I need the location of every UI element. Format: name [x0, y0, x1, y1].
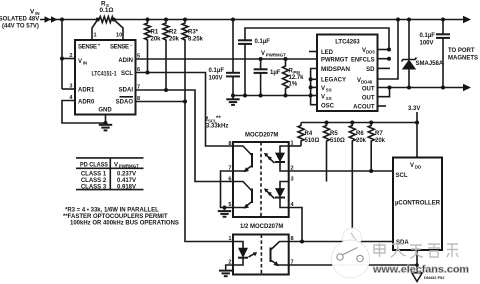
capacitor C1 0.1uF 100V input bypass — [208, 18, 240, 96]
node R6 SDA junction — [350, 240, 354, 244]
wire VDD48 to top rail — [378, 20, 399, 80]
svg-text:V: V — [114, 162, 118, 168]
node VDD5 junction — [387, 48, 391, 52]
svg-text:SDAI: SDAI — [119, 88, 134, 94]
node input junction — [60, 18, 64, 22]
wire VSS bus vertical — [311, 69, 317, 105]
svg-text:PD CLASS: PD CLASS — [80, 162, 108, 168]
resistor R4 510ohm — [298, 123, 320, 147]
node R2-SDAI junction — [164, 88, 168, 92]
svg-text:CLASS 2: CLASS 2 — [81, 178, 107, 184]
node C4 top junction — [441, 18, 445, 22]
label TO PORT MAGNETS — [448, 48, 478, 62]
transistor Q1 upper opto — [233, 146, 252, 172]
wire SDA row — [289, 241, 393, 243]
svg-text:1µF: 1µF — [270, 70, 281, 76]
wire kelvin sense right to pin 10 — [114, 20, 123, 41]
wire VDD5 pin stub — [378, 49, 390, 51]
wire uController SDA down — [416, 250, 418, 273]
svg-text:R1: R1 — [151, 30, 159, 36]
svg-text:LEGACY: LEGACY — [321, 78, 346, 84]
svg-text:100kHz OR 400kHz BUS OPERATION: 100kHz OR 400kHz BUS OPERATIONS — [70, 221, 179, 227]
optocoupler U3 dashed divider — [260, 142, 262, 217]
svg-text:LTC4151-1: LTC4151-1 — [92, 72, 118, 78]
svg-text:20k: 20k — [151, 37, 162, 43]
ground VSS rail ground symbol — [226, 96, 239, 105]
resistor R2 20k — [163, 18, 180, 91]
wire lower opto pin7 row — [289, 264, 417, 266]
svg-text:*R3 = 4 • 33k, 1/6W IN PARALLE: *R3 = 4 • 33k, 1/6W IN PARALLEL — [65, 208, 159, 214]
svg-text:12.7k: 12.7k — [289, 75, 305, 81]
optocoupler U3 box — [233, 142, 289, 217]
svg-text:SMAJ58A: SMAJ58A — [416, 61, 444, 67]
svg-text:www.elecfans.com: www.elecfans.com — [372, 264, 469, 276]
svg-text:OSC: OSC — [321, 104, 335, 110]
svg-text:V: V — [261, 51, 265, 57]
svg-text:V: V — [321, 86, 325, 92]
svg-text:20k: 20k — [356, 138, 367, 144]
svg-text:V: V — [78, 59, 82, 65]
svg-text:0.1Ω: 0.1Ω — [100, 7, 114, 14]
node GND junction — [104, 121, 108, 125]
resistor RPM 12.7k 1% — [283, 59, 305, 96]
svg-text:20k: 20k — [375, 138, 386, 144]
svg-text:LTC4263: LTC4263 — [335, 40, 360, 46]
light arrows channel 2 — [264, 188, 275, 198]
svg-text:DD48: DD48 — [361, 80, 373, 85]
svg-text:100V: 100V — [420, 41, 434, 47]
node 3.3V junction — [415, 121, 419, 125]
wire kelvin sense left to pin 1 — [92, 20, 98, 41]
node C2 bottom junction — [243, 94, 247, 98]
svg-text:**FASTER OPTOCOUPLERS PERMIT: **FASTER OPTOCOUPLERS PERMIT — [63, 214, 168, 220]
svg-text:0.1µF: 0.1µF — [420, 33, 436, 39]
resistor R1 20k — [145, 18, 162, 73]
node D1 bottom junction — [407, 86, 411, 90]
svg-text:+: + — [98, 43, 101, 48]
capacitor C3 1uF — [254, 59, 281, 96]
ground lower opto — [219, 271, 232, 277]
wire SCL row to uController — [289, 170, 393, 172]
node C4 bottom junction — [441, 86, 445, 90]
IC U5 uController box — [393, 158, 442, 251]
svg-text:0.1µF: 0.1µF — [255, 39, 271, 45]
wire LED pin stub — [309, 51, 317, 53]
light arrow lower opto — [249, 252, 258, 257]
wire emitter tie pins 7-5 — [221, 171, 234, 208]
svg-text:100V: 100V — [208, 76, 222, 82]
node R3-SDAO junction — [183, 100, 187, 104]
node RPM bottom junction — [284, 94, 288, 98]
svg-text:V: V — [321, 95, 325, 101]
svg-text:MOCD207M: MOCD207M — [245, 133, 278, 139]
wire top 48V rail — [62, 16, 471, 23]
svg-text:R3*: R3* — [188, 30, 199, 36]
node C1 bottom junction — [231, 94, 235, 98]
svg-text:SENSE: SENSE — [110, 45, 129, 51]
svg-text:GND: GND — [98, 108, 112, 114]
svg-text:OUT: OUT — [362, 96, 375, 102]
wire ACOUT pin stub — [378, 105, 387, 107]
svg-text:ISOLATED 48V: ISOLATED 48V — [0, 17, 39, 23]
svg-text:LED: LED — [321, 50, 334, 56]
capacitor C4 0.1uF 100V output — [420, 20, 451, 88]
svg-text:8.25k: 8.25k — [188, 37, 204, 43]
svg-text:DN432 F02: DN432 F02 — [424, 275, 445, 280]
svg-text:R5: R5 — [330, 131, 338, 137]
svg-text:ADIN: ADIN — [118, 58, 133, 64]
resistor R5 510ohm — [324, 121, 346, 182]
svg-text:1: 1 — [94, 33, 97, 39]
svg-text:DD5: DD5 — [366, 50, 375, 55]
op-amp U1 LTC4151-1 box — [75, 40, 136, 115]
node pin7 SDA junction — [415, 263, 419, 267]
svg-text:0.237V: 0.237V — [117, 171, 136, 177]
svg-text:ACOUT: ACOUT — [353, 105, 375, 111]
svg-text:µCONTROLLER: µCONTROLLER — [395, 201, 441, 207]
svg-text:SENSE: SENSE — [78, 45, 97, 51]
wire ADIN pin5 to PWRMGT row — [136, 58, 318, 60]
table PD CLASS — [76, 158, 144, 190]
svg-text:R6: R6 — [356, 131, 364, 137]
svg-text:510Ω: 510Ω — [305, 138, 320, 144]
svg-text:ADR0: ADR0 — [78, 100, 95, 106]
svg-text:−: − — [130, 43, 133, 48]
node VSS bus junction VSS1 — [309, 85, 313, 89]
wire R4 to opto pin 1 — [289, 145, 301, 147]
wire 3.3V rail — [301, 112, 417, 158]
wire SDAI pin7 row — [136, 90, 234, 182]
node R7-SCL junction — [369, 169, 373, 173]
node RPM top junction — [284, 57, 288, 61]
svg-text:ENFCLS: ENFCLS — [351, 58, 375, 64]
svg-text:TO PORT: TO PORT — [448, 48, 475, 54]
svg-text:PWRMGT: PWRMGT — [266, 53, 286, 58]
resistor R7 20k — [368, 121, 385, 172]
node VSS bus junction VSS2 — [309, 94, 313, 98]
node VSS bus junction LEGACY — [309, 77, 313, 81]
arrow SDA off page — [412, 273, 422, 282]
svg-text:**: ** — [216, 116, 221, 122]
svg-text:R4: R4 — [305, 131, 313, 137]
svg-text:1%: 1% — [289, 82, 298, 88]
wire VIN vertical to pin 2 and pin 3 — [62, 20, 75, 90]
watermark logo — [332, 228, 370, 278]
svg-text:SS: SS — [326, 96, 332, 101]
svg-text:MIDSPAN: MIDSPAN — [321, 67, 350, 73]
wire opto pin4 to SDA row — [289, 208, 302, 242]
svg-text:R7: R7 — [375, 131, 383, 137]
svg-text:SCL: SCL — [396, 173, 408, 179]
svg-text:3: 3 — [69, 84, 72, 90]
wire ADR0 pin 4 to ground — [62, 95, 106, 123]
node emitter ground junction — [223, 206, 227, 210]
wire SDAO pin8 row — [136, 102, 234, 242]
wire lower opto pin2 to ground — [226, 265, 233, 270]
svg-text:2: 2 — [69, 53, 72, 59]
resistor RS 0.1ohm — [96, 1, 116, 23]
wire SD pin stub — [378, 67, 391, 69]
IC U2 LTC4263 box — [317, 35, 378, 112]
node ENFCLS junction — [387, 57, 391, 61]
ground under LTC4151 — [99, 125, 112, 131]
LED D3 upper opto channel 2 — [275, 182, 289, 208]
node OUT junction — [388, 86, 392, 90]
svg-text:0.918V: 0.918V — [117, 184, 136, 190]
node pin4 vertical SDA junction — [300, 240, 304, 244]
svg-text:PWRMGT: PWRMGT — [119, 163, 139, 168]
LED D2 upper opto channel 1 — [275, 146, 289, 171]
svg-text:20k: 20k — [169, 37, 180, 43]
node VPWRMGT label — [261, 51, 286, 58]
wire input lead with double arrowhead — [40, 16, 62, 23]
wire GND pin stub — [105, 115, 107, 124]
node C3 top junction — [259, 57, 263, 61]
svg-text:1/2 MOCD207M: 1/2 MOCD207M — [240, 224, 283, 230]
node pin2 junction — [60, 57, 64, 61]
transistor Q3 lower opto — [271, 242, 289, 267]
label fSCL 3.33kHz — [206, 116, 228, 130]
svg-text:V: V — [410, 163, 414, 169]
node C3 bottom junction — [259, 94, 263, 98]
svg-text:3: 3 — [291, 177, 294, 183]
svg-text:ADR1: ADR1 — [78, 88, 95, 94]
svg-text:R2: R2 — [169, 30, 177, 36]
wire VSS ground rail — [233, 95, 311, 97]
wire SCL pin6 row — [136, 73, 234, 147]
capacitor C2 0.1uF VDD5 bypass — [238, 28, 389, 96]
node VIN input label — [0, 9, 40, 30]
node D1 top junction — [407, 18, 411, 22]
svg-text:8: 8 — [228, 141, 231, 147]
svg-text:0.1µF: 0.1µF — [209, 68, 225, 74]
svg-text:IN: IN — [83, 61, 87, 66]
svg-text:CLASS 1: CLASS 1 — [81, 171, 107, 177]
wire OUT2 pin stub — [378, 88, 390, 97]
node VDD48 rail junction — [396, 18, 400, 22]
svg-text:DD: DD — [415, 165, 421, 170]
light arrows channel 1 — [264, 153, 275, 163]
resistor R6 20k — [349, 121, 366, 242]
resistor R3* 8.25k — [182, 18, 204, 102]
svg-text:510Ω: 510Ω — [330, 138, 345, 144]
svg-text:SS: SS — [326, 88, 332, 93]
svg-text:OUT: OUT — [362, 87, 375, 93]
transistor Q2 lower-left opto — [233, 182, 252, 209]
svg-text:3.3V: 3.3V — [408, 106, 420, 112]
optocoupler U4 dashed divider — [260, 235, 262, 275]
svg-text:0.417V: 0.417V — [117, 178, 136, 184]
svg-text:MAGNETS: MAGNETS — [448, 56, 478, 62]
svg-text:6: 6 — [228, 177, 231, 183]
svg-text:PWRMGT: PWRMGT — [321, 58, 348, 64]
optocoupler U4 box — [233, 235, 289, 275]
LED D4 lower opto — [233, 242, 248, 266]
ground upper opto — [218, 208, 231, 217]
svg-text:10: 10 — [116, 33, 122, 39]
svg-text:3.33kHz: 3.33kHz — [206, 124, 228, 130]
node R1-SCL junction — [146, 71, 150, 75]
svg-text:CLASS 3: CLASS 3 — [81, 184, 107, 190]
svg-text:SDAO: SDAO — [116, 100, 134, 106]
svg-text:IN: IN — [35, 11, 39, 16]
wire OUT rail — [378, 84, 472, 91]
watermark chinese text — [374, 243, 458, 258]
svg-text:SD: SD — [366, 67, 375, 73]
svg-text:(44V TO 57V): (44V TO 57V) — [2, 24, 39, 30]
wire ENFCLS pin stub — [378, 58, 390, 60]
diode D1 SMAJ58A TVS — [402, 20, 444, 88]
svg-text:SCL: SCL — [121, 71, 133, 77]
svg-text:1: 1 — [228, 236, 231, 242]
